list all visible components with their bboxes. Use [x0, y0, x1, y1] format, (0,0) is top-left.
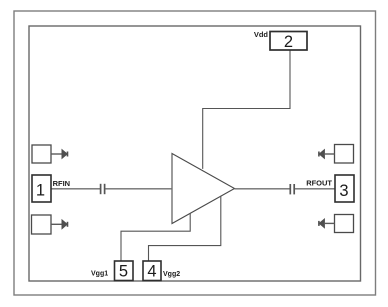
svg-text:RFIN: RFIN — [53, 179, 71, 188]
svg-text:4: 4 — [147, 263, 156, 281]
svg-text:1: 1 — [36, 182, 45, 200]
svg-text:3: 3 — [339, 182, 348, 200]
svg-text:RFOUT: RFOUT — [306, 179, 332, 188]
svg-text:Vgg1: Vgg1 — [91, 270, 108, 277]
svg-text:2: 2 — [284, 33, 293, 51]
svg-text:Vgg2: Vgg2 — [163, 271, 180, 278]
svg-text:Vdd: Vdd — [254, 30, 269, 39]
svg-text:5: 5 — [119, 263, 128, 281]
